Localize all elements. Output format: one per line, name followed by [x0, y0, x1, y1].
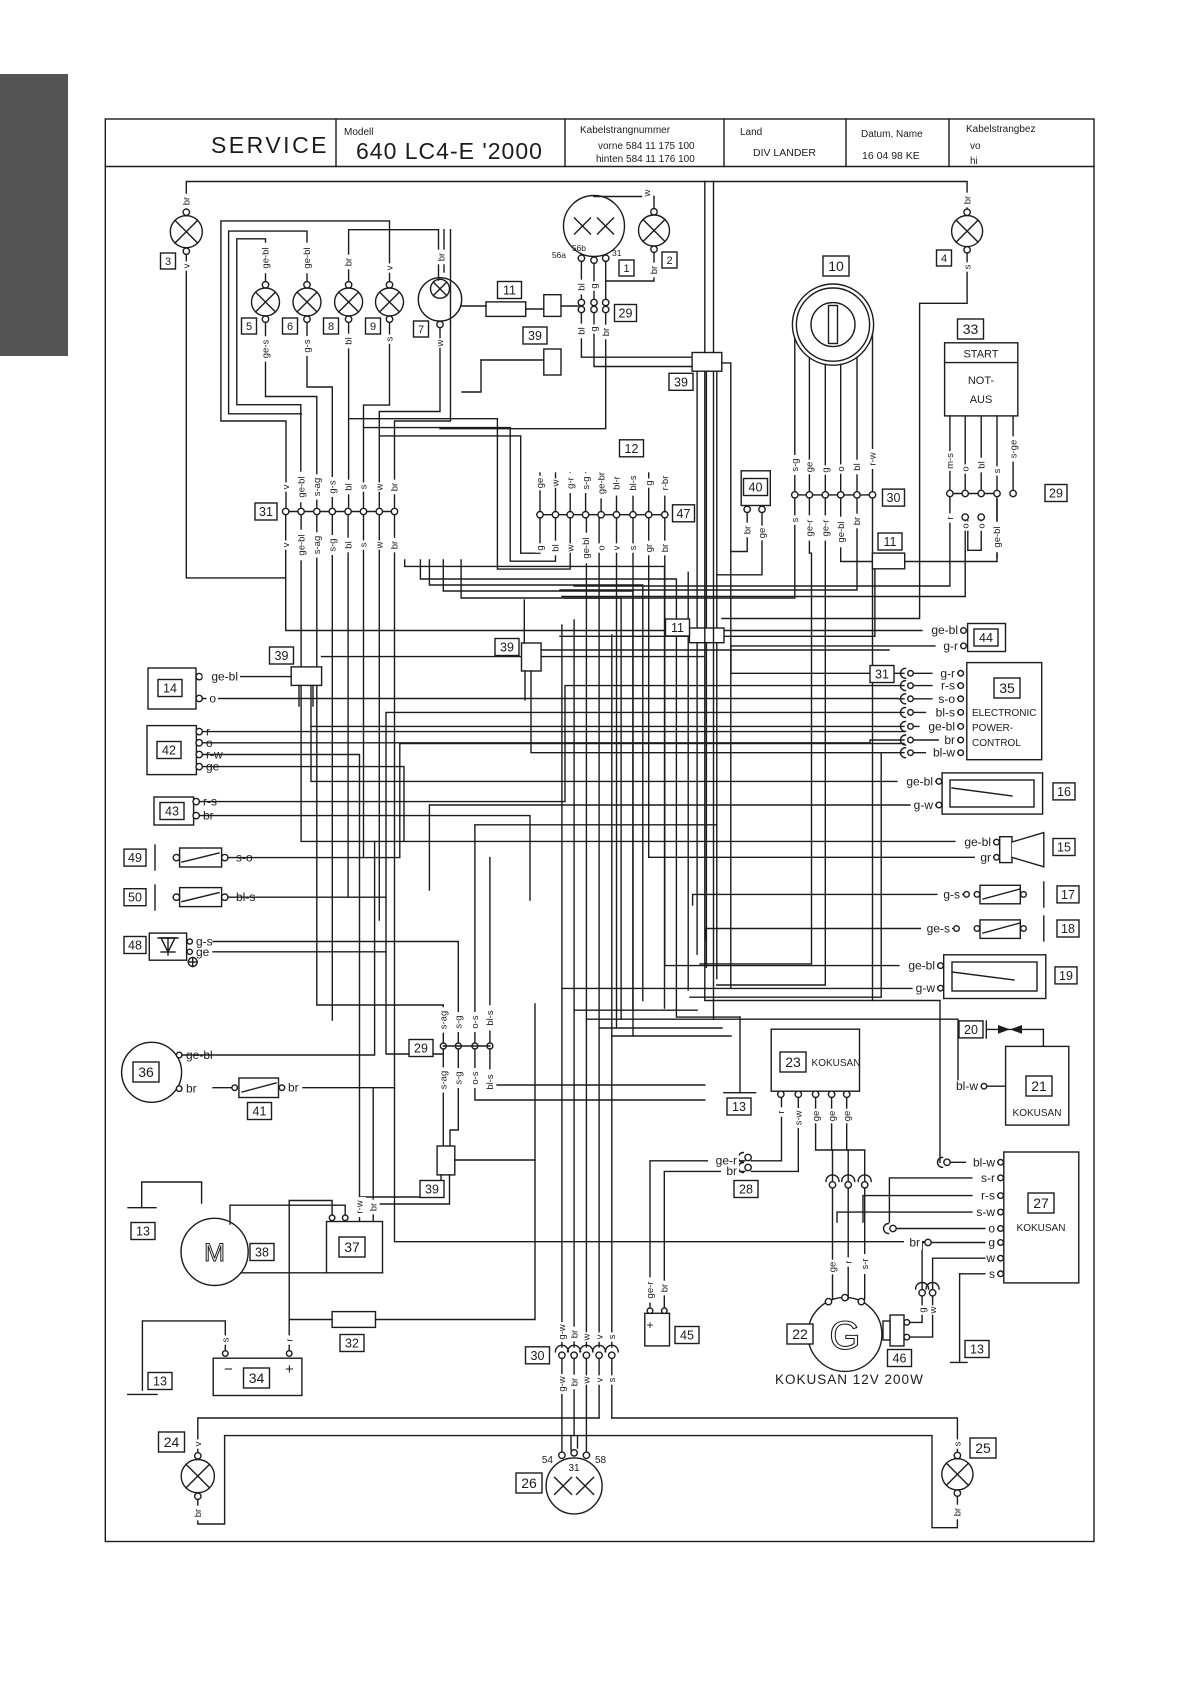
wire 29mid bl-s up [489, 858, 491, 1043]
row30 labels above [0, 0, 1, 1]
ignition lock 10 [792, 284, 873, 365]
svg-text:g: g [535, 545, 546, 550]
row47 labels above [0, 0, 1, 1]
svg-text:30: 30 [531, 1349, 545, 1363]
svg-text:br: br [726, 1164, 737, 1178]
svg-text:ge-br: ge-br [596, 472, 607, 494]
svg-text:s: s [989, 1267, 995, 1281]
svg-text:g-w: g-w [914, 798, 934, 812]
switch 49 [155, 845, 253, 870]
svg-text:g-r: g-r [565, 477, 576, 489]
svg-text:bl-w: bl-w [933, 746, 955, 760]
wire 14 o to EPC s-o [202, 698, 904, 700]
svg-text:br: br [601, 328, 612, 336]
svg-text:15: 15 [1057, 841, 1071, 855]
svg-text:2: 2 [666, 255, 672, 267]
bus br lamp24 loop [198, 1436, 225, 1524]
svg-text:42: 42 [162, 744, 176, 758]
svg-text:ge-bl: ge-bl [836, 521, 847, 542]
wire s 27 to ground [960, 1273, 998, 1275]
svg-text:bl-w: bl-w [973, 1155, 995, 1169]
svg-text:CONTROL: CONTROL [972, 738, 1021, 749]
svg-text:w: w [582, 1376, 593, 1384]
svg-text:39: 39 [425, 1183, 439, 1197]
svg-text:br: br [742, 526, 753, 534]
svg-text:s: s [628, 545, 639, 550]
wire 39 left top to EPC g-r [322, 656, 705, 658]
svg-text:ge-bl: ge-bl [296, 476, 307, 497]
wire lock br down-left [560, 498, 857, 590]
svg-text:ge-bl: ge-bl [931, 623, 958, 637]
svg-text:bl: bl [852, 463, 863, 470]
wire 42 r [202, 731, 904, 733]
wire bl-w drop [690, 753, 881, 998]
svg-text:o: o [960, 523, 971, 528]
connector 42 [147, 725, 223, 775]
svg-text:ge-r: ge-r [821, 520, 832, 537]
svg-text:49: 49 [128, 851, 142, 865]
svg-text:s-ag: s-ag [439, 1071, 450, 1089]
svg-text:21: 21 [1031, 1078, 1047, 1094]
row47 tail harness drops [616, 518, 618, 1028]
harness wires row30b up [561, 625, 563, 1347]
svg-text:56b: 56b [572, 243, 586, 253]
svg-text:ge: ge [805, 462, 816, 473]
lamp 8 high beam indicator [335, 282, 363, 323]
connector 11 top rect [486, 302, 526, 317]
labels generator wires [0, 0, 1, 1]
svg-text:KOKUSAN: KOKUSAN [1013, 1108, 1062, 1119]
outer border frame [105, 119, 1094, 1542]
svg-text:16 04 98 KE: 16 04 98 KE [862, 150, 920, 162]
connector 39 mid-right rect [522, 643, 542, 671]
flasher relay 36 [122, 1042, 213, 1102]
svg-text:br: br [909, 1236, 920, 1250]
wires headlight terms to pairs [580, 261, 582, 299]
svg-text:M: M [204, 1239, 225, 1267]
svg-text:hi: hi [970, 156, 978, 167]
wire 36 br to 41 [213, 1087, 232, 1089]
wire lock ge-r down [700, 498, 812, 964]
wires 39mid to 37 [360, 1175, 442, 1197]
wires 45 up to 28 [650, 1161, 745, 1308]
wire br lamp2 joins 31 wire [606, 253, 654, 282]
ignition unit 27 KOKUSAN [998, 1152, 1079, 1283]
svg-text:g-w: g-w [557, 1324, 568, 1339]
svg-text:s: s [359, 542, 370, 547]
battery 34 [213, 1351, 302, 1396]
svg-text:ge-bl: ge-bl [211, 670, 238, 684]
svg-text:22: 22 [792, 1326, 808, 1342]
svg-text:v: v [193, 1441, 204, 1446]
brake switch 19 [938, 955, 1046, 999]
svg-text:7: 7 [418, 324, 424, 336]
svg-text:ge-bl: ge-bl [581, 537, 592, 558]
svg-text:640 LC4-E '2000: 640 LC4-E '2000 [356, 138, 543, 164]
svg-text:br: br [660, 1284, 671, 1292]
wire 41 br right [303, 1087, 395, 1089]
svg-text:br: br [186, 1082, 197, 1096]
diode 20 [986, 1021, 1043, 1038]
svg-text:ge-bl: ge-bl [906, 774, 933, 788]
svg-text:31: 31 [612, 248, 622, 258]
wire br parallel stub [443, 230, 445, 272]
capacitor 45 [645, 1308, 670, 1346]
lamp 5 instrument lamp [252, 282, 280, 323]
svg-text:bl: bl [577, 283, 588, 290]
svg-text:48: 48 [128, 939, 142, 953]
svg-text:Datum, Name: Datum, Name [861, 129, 923, 140]
svg-text:ge: ge [828, 1262, 839, 1273]
svg-text:KOKUSAN 12V 200W: KOKUSAN 12V 200W [775, 1372, 924, 1387]
svg-text:w: w [928, 1306, 939, 1314]
svg-text:r-s: r-s [941, 679, 955, 693]
svg-text:w: w [435, 339, 446, 347]
svg-text:o: o [209, 692, 216, 706]
wire 29mid o-s up [475, 825, 717, 1043]
wire lamp9 s to row31 [364, 322, 390, 507]
parking lamp 2 [639, 209, 670, 253]
svg-text:g: g [988, 1236, 995, 1250]
wire 29r m-s staircase [574, 497, 950, 586]
connector pairs 29 below headlight [578, 299, 609, 312]
wire 29r o staircase [562, 520, 965, 596]
wire 11 to 39B [526, 308, 544, 310]
junction right branch [722, 363, 731, 989]
switch 17 [964, 882, 1044, 907]
connector 39 rect B [544, 295, 561, 317]
svg-text:SERVICE: SERVICE [211, 132, 329, 158]
svg-text:s-g: s-g [454, 1071, 465, 1084]
svg-text:ge-s: ge-s [261, 340, 272, 359]
row47 stub wires above [539, 473, 541, 512]
svg-text:DIV LANDER: DIV LANDER [753, 147, 816, 159]
svg-text:39: 39 [674, 375, 688, 389]
svg-text:START: START [963, 349, 998, 361]
wire 48 ge [213, 951, 386, 953]
wire g-s to 17 [693, 894, 964, 905]
svg-text:NOT-: NOT- [968, 375, 995, 387]
svg-text:r-w: r-w [868, 452, 879, 465]
svg-text:o: o [596, 545, 607, 550]
svg-text:o: o [988, 1222, 995, 1236]
svg-text:13: 13 [136, 1225, 150, 1239]
svg-text:hinten 584 11 176 100: hinten 584 11 176 100 [596, 154, 695, 165]
svg-text:47: 47 [677, 507, 691, 521]
svg-text:gr: gr [980, 850, 991, 864]
CDI box 23 KOKUSAN [771, 1029, 860, 1097]
svg-text:39: 39 [528, 329, 542, 343]
wire br branch down to row31 [395, 230, 451, 507]
row47 labels below [0, 0, 1, 1]
svg-text:ge-s: ge-s [927, 922, 950, 936]
connector 40 [741, 471, 770, 513]
svg-text:44: 44 [979, 631, 993, 645]
svg-text:24: 24 [164, 1434, 180, 1450]
svg-text:g-r: g-r [943, 639, 958, 653]
switch 50 [155, 885, 255, 910]
svg-text:ge-r: ge-r [805, 520, 816, 537]
svg-text:ge: ge [196, 945, 210, 959]
wire br top bus [186, 182, 967, 210]
svg-text:bl-r: bl-r [612, 476, 623, 490]
svg-text:br: br [953, 1508, 964, 1516]
svg-text:s: s [607, 1377, 618, 1382]
svg-text:r-s: r-s [981, 1189, 995, 1203]
wire ge-s to 18 [706, 929, 954, 941]
wire 39 left pins [298, 685, 300, 706]
row31 labels below [0, 0, 1, 1]
junction connector 39 middle [692, 353, 722, 372]
svg-text:KOKUSAN: KOKUSAN [812, 1058, 861, 1069]
svg-text:36: 36 [138, 1064, 154, 1080]
connector row 29 right [947, 490, 1017, 496]
svg-text:+: + [647, 1318, 654, 1332]
svg-text:ELECTRONIC: ELECTRONIC [972, 708, 1036, 719]
wire label overlay [124, 188, 1079, 1520]
wire M to relay 37 [230, 1205, 345, 1224]
svg-text:33: 33 [963, 321, 979, 337]
svg-text:g: g [589, 326, 600, 331]
svg-text:56a: 56a [552, 250, 566, 260]
wire 36 ge-bl [182, 841, 375, 1055]
wire s-r to 27 [889, 1178, 997, 1222]
svg-text:18: 18 [1061, 922, 1075, 936]
wire bl-w bus to 21 [714, 371, 968, 1086]
starter relay 37 [327, 1215, 383, 1273]
wire g-r to 44 and pair [731, 646, 961, 673]
generator 22 G KOKUSAN [808, 1294, 882, 1371]
wires 40 down [731, 513, 747, 552]
wire M to 37 bottom cable [241, 1272, 383, 1274]
connector 11 left rect [689, 628, 724, 643]
svg-text:28: 28 [739, 1183, 753, 1197]
wire lock r-w long down [872, 498, 874, 1000]
svg-text:br: br [569, 1330, 580, 1338]
wire 14 ge-bl to 16 [202, 677, 936, 782]
svg-text:14: 14 [163, 682, 177, 696]
svg-text:s-ag: s-ag [312, 536, 323, 554]
svg-text:29: 29 [1049, 487, 1063, 501]
svg-text:o-s: o-s [470, 1015, 481, 1028]
svg-text:w: w [985, 1251, 995, 1265]
wire loop lamp9.v to row31 [221, 221, 390, 507]
svg-text:s: s [221, 1337, 232, 1342]
wire 43 br [199, 816, 530, 900]
svg-text:br: br [288, 1081, 299, 1095]
wire r-s to 27 [863, 1196, 998, 1222]
svg-text:50: 50 [128, 891, 142, 905]
row30 labels below [0, 0, 1, 1]
svg-text:br: br [193, 1509, 204, 1517]
wire s lamp4 down-left [722, 253, 967, 618]
svg-text:11: 11 [503, 284, 516, 298]
svg-text:−: − [224, 1361, 233, 1378]
wire g-w to 16 [429, 805, 936, 890]
svg-text:+: + [285, 1361, 294, 1378]
wire 50 bl-s [228, 712, 904, 897]
svg-text:v: v [182, 263, 193, 268]
electronic power control 35 [967, 663, 1042, 760]
connector row 31 [283, 508, 398, 514]
tail lamp 26 [542, 1450, 607, 1514]
svg-text:g-w: g-w [916, 981, 936, 995]
connector 39 rect C [544, 349, 561, 375]
wire 28 br to 23 s-w [751, 1098, 798, 1172]
svg-text:v: v [594, 1334, 605, 1339]
wires 23 ge pins to generator [816, 1098, 833, 1182]
svg-text:w: w [375, 483, 386, 491]
svg-text:26: 26 [521, 1475, 537, 1491]
wire 39C left [481, 359, 544, 361]
connector 43 [154, 795, 217, 825]
CDI 21 KOKUSAN [981, 1046, 1069, 1125]
svg-text:bl-s: bl-s [628, 475, 639, 491]
svg-text:w: w [551, 479, 562, 487]
svg-text:br: br [962, 196, 973, 204]
wire g to junction 39 [594, 313, 692, 367]
svg-text:32: 32 [345, 1337, 359, 1351]
ground 13 bottom left [128, 1393, 157, 1395]
svg-text:35: 35 [999, 680, 1015, 696]
svg-text:bl-w: bl-w [956, 1079, 978, 1093]
svg-text:s: s [790, 517, 801, 522]
svg-text:s-w: s-w [976, 1205, 995, 1219]
svg-text:45: 45 [680, 1329, 694, 1343]
svg-text:3: 3 [165, 256, 171, 268]
main bus verticals [704, 182, 706, 353]
connector bl-w 27 [938, 1157, 951, 1167]
svg-text:1: 1 [623, 263, 629, 275]
svg-text:s-g: s-g [790, 458, 801, 471]
svg-text:46: 46 [893, 1352, 907, 1366]
svg-text:38: 38 [255, 1246, 269, 1260]
left gray sidebar block [0, 74, 68, 356]
wire 49 s-o [228, 744, 904, 858]
svg-text:s-ge: s-ge [1008, 440, 1019, 458]
svg-text:g-s: g-s [328, 480, 339, 493]
svg-text:58: 58 [595, 1455, 607, 1466]
svg-text:s: s [607, 1334, 618, 1339]
wire 42 ge [202, 767, 404, 842]
svg-text:bl: bl [344, 337, 355, 344]
wire bl to junction 39 [581, 313, 692, 358]
svg-text:31: 31 [568, 1463, 580, 1474]
connector 14 [148, 668, 202, 709]
wire br down-left to lamp7 [440, 313, 606, 429]
wires row30b down to tail lamp [561, 1359, 563, 1453]
svg-text:20: 20 [964, 1023, 978, 1037]
wire o to 27 [884, 1224, 897, 1234]
wire 28 ge-r to 23 r [751, 1098, 781, 1161]
svg-text:o-s: o-s [470, 1071, 481, 1084]
svg-text:g: g [917, 1307, 928, 1312]
bus v lamp24 to row30 [198, 1418, 599, 1453]
svg-text:ge: ge [842, 1111, 853, 1122]
wire lamp7 to 11 [462, 305, 486, 307]
switch 33 START NOT-AUS [945, 343, 1018, 416]
svg-text:bl: bl [343, 541, 354, 548]
wire fuse right long [376, 1004, 536, 1320]
wire 42 o to EPC br [202, 740, 904, 743]
wire 39B right stub [561, 305, 578, 307]
wire v lamp3 down right [186, 254, 285, 578]
svg-text:AUS: AUS [970, 394, 993, 406]
svg-text:6: 6 [287, 321, 293, 333]
svg-text:27: 27 [1033, 1195, 1049, 1211]
svg-text:r: r [284, 1338, 295, 1341]
lamp 25 rear turn right [942, 1452, 973, 1496]
svg-text:39: 39 [275, 649, 289, 663]
svg-text:w: w [375, 541, 386, 549]
svg-text:v: v [612, 545, 623, 550]
svg-text:31: 31 [259, 505, 273, 519]
labels row30 bottom [0, 0, 1, 1]
wire lamp7 w to row31 [379, 328, 440, 507]
lamp 3 front turn signal left [170, 209, 202, 254]
svg-text:o: o [836, 466, 847, 471]
svg-text:r: r [843, 1260, 854, 1263]
svg-text:11: 11 [671, 621, 684, 635]
wire 42 r-w to starter relay [202, 755, 359, 1222]
svg-text:br: br [649, 266, 660, 274]
lamp 24 rear turn left [181, 1453, 214, 1500]
svg-text:ge: ge [535, 478, 546, 489]
svg-text:KOKUSAN: KOKUSAN [1017, 1223, 1066, 1234]
svg-text:39: 39 [500, 641, 514, 655]
svg-text:Kabelstrangnummer: Kabelstrangnummer [580, 125, 671, 136]
wire g from pickup [922, 1242, 925, 1244]
wire br-g to 27 [925, 1239, 931, 1245]
lamp 9 indicator lamp [376, 282, 404, 323]
bus br main [225, 1436, 958, 1528]
lamp 7 speedometer with illumination [418, 278, 461, 328]
svg-text:Kabelstrangbez: Kabelstrangbez [966, 124, 1036, 135]
labels 29 mid [0, 0, 1, 1]
svg-text:13: 13 [970, 1343, 984, 1357]
svg-text:r: r [945, 516, 956, 519]
svg-text:16: 16 [1057, 785, 1071, 799]
connector row 47 [537, 512, 668, 518]
svg-text:10: 10 [828, 258, 844, 274]
svg-text:r-w: r-w [355, 1200, 366, 1213]
svg-text:25: 25 [975, 1440, 991, 1456]
svg-text:ge: ge [827, 1111, 838, 1122]
svg-text:5: 5 [246, 321, 252, 333]
svg-text:s: s [385, 336, 396, 341]
svg-text:17: 17 [1061, 888, 1075, 902]
svg-text:v: v [594, 1377, 605, 1382]
fuel sensor 16 [936, 773, 1042, 814]
svg-text:9: 9 [370, 321, 376, 333]
svg-text:8: 8 [328, 321, 334, 333]
svg-text:g-s: g-s [943, 887, 960, 901]
svg-text:s: s [359, 484, 370, 489]
fuse 32 [332, 1312, 375, 1328]
wire loop lamp6 top [229, 231, 307, 414]
wire battery plus to relay 37 [289, 1201, 332, 1351]
row29 lower pair circles [962, 514, 984, 520]
starter motor 38 M [181, 1218, 248, 1285]
svg-text:v: v [385, 265, 396, 270]
connector row 30 bottom [555, 1345, 618, 1358]
svg-text:ge-bl: ge-bl [928, 719, 955, 733]
svg-text:29: 29 [414, 1042, 428, 1056]
svg-text:4: 4 [941, 253, 947, 265]
wire 11right second drop [560, 569, 875, 637]
svg-text:bl-s: bl-s [485, 1074, 496, 1090]
svg-text:12: 12 [625, 442, 639, 456]
